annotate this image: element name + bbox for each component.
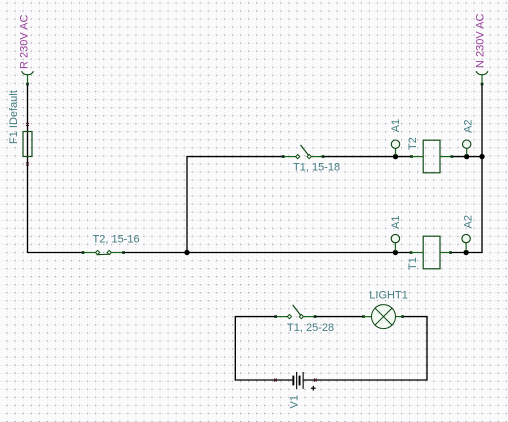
svg-text:T2, 15-16: T2, 15-16 xyxy=(93,234,140,246)
wire lamp loop bottom segments xyxy=(235,379,293,381)
fuse F1 xyxy=(8,90,32,165)
switch T1, 25-28 (open contact) xyxy=(274,305,334,334)
terminal R 230V AC xyxy=(19,15,34,86)
label + polarity xyxy=(311,387,316,389)
svg-text:T1, 15-18: T1, 15-18 xyxy=(293,161,340,173)
junction node row2/middle vertical xyxy=(184,250,189,255)
wire lamp loop right vertical xyxy=(426,317,428,380)
wire left bus vertical xyxy=(27,84,29,253)
svg-text:A2: A2 xyxy=(463,120,475,133)
wire row2 horizontal left xyxy=(27,252,83,254)
svg-text:LIGHT1: LIGHT1 xyxy=(369,290,408,302)
svg-text:T1: T1 xyxy=(407,257,419,270)
junction node row1/right bus xyxy=(479,154,484,159)
wire row2 horizontal middle xyxy=(124,252,412,254)
svg-text:R 230V AC: R 230V AC xyxy=(19,15,31,69)
svg-text:T2: T2 xyxy=(407,137,419,150)
wire row1 horizontal right xyxy=(452,156,482,158)
svg-text:V1: V1 xyxy=(289,395,301,408)
relay coil T2 xyxy=(407,137,453,173)
relay coil T1 xyxy=(407,236,452,270)
wire row2 horizontal right xyxy=(451,252,483,254)
svg-text:A2: A2 xyxy=(463,215,475,228)
switch T1, 15-18 (open contact) xyxy=(282,145,340,173)
switch T2, 15-16 (closed contact) xyxy=(82,234,140,255)
svg-text:T1, 25-28: T1, 25-28 xyxy=(287,322,334,334)
wire right bus vertical xyxy=(481,84,483,253)
svg-text:N 230V AC: N 230V AC xyxy=(475,14,487,68)
wire lamp loop top segments xyxy=(235,316,276,318)
terminal A2 row2 xyxy=(462,215,475,255)
lamp LIGHT1 xyxy=(362,290,408,329)
terminal A1 row1 xyxy=(390,119,402,159)
svg-text:F1 IDefault: F1 IDefault xyxy=(8,90,20,144)
terminal A1 row2 xyxy=(390,216,402,256)
svg-text:A1: A1 xyxy=(390,119,402,132)
wire row1 horizontal left xyxy=(186,156,283,158)
battery V1 xyxy=(275,372,317,409)
terminal A2 row1 xyxy=(463,120,475,160)
wire middle vertical xyxy=(186,157,188,253)
terminal N 230V AC xyxy=(475,14,488,86)
wire row1 horizontal middle xyxy=(323,156,412,158)
svg-text:A1: A1 xyxy=(390,216,402,229)
wire lamp loop left vertical xyxy=(234,317,236,380)
